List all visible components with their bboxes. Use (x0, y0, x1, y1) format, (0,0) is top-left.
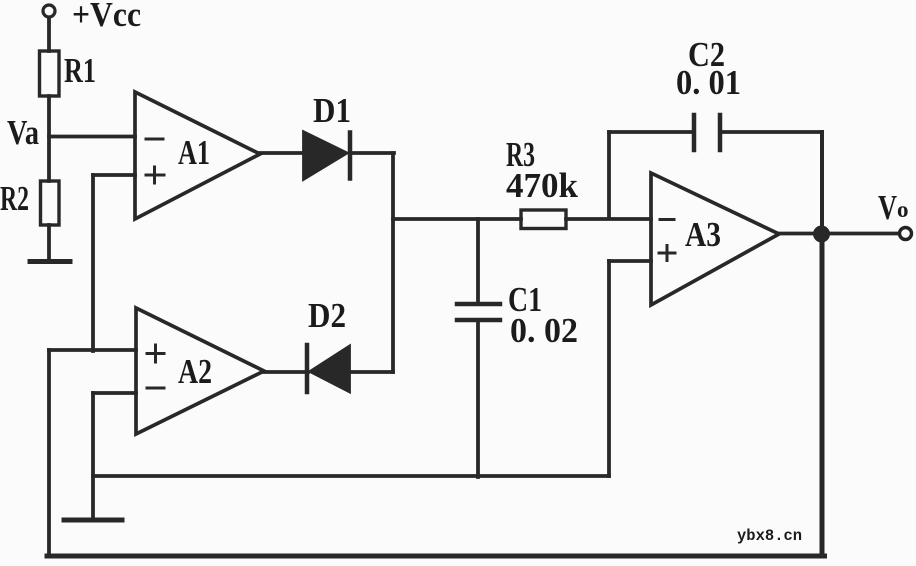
wire A1 output to D1 (260, 151, 305, 155)
svg-text:A3: A3 (685, 215, 721, 254)
wire ground rail to A3 plus (93, 474, 609, 478)
svg-text:A2: A2 (178, 352, 212, 391)
node output junction dot (813, 226, 830, 243)
wire C2 left lead (609, 130, 694, 134)
svg-text:+Vcc: +Vcc (72, 0, 141, 34)
wire A2 output to D2 (264, 370, 308, 374)
wire D2 to corner (349, 370, 393, 374)
wire bottom feedback rail (47, 554, 825, 559)
wire A2 noninverting input rail (49, 348, 136, 352)
wire A2 minus down to ground (91, 393, 95, 518)
wire C2 right lead (720, 130, 822, 134)
wire R3 to A3 inverting input (566, 217, 651, 221)
svg-text:V: V (878, 188, 897, 227)
capacitor C2 (694, 115, 720, 150)
D1 cathode bar (348, 133, 353, 179)
op-amp A2 (136, 308, 264, 434)
A1 plus pin mark (146, 167, 164, 183)
wire right loop vertical D1-D2 (391, 153, 395, 372)
svg-text:A1: A1 (178, 133, 210, 172)
resistor R3 (521, 210, 566, 229)
terminal +Vcc (43, 5, 55, 17)
svg-text:D2: D2 (308, 296, 346, 335)
wire C2 left vertical (607, 132, 611, 218)
wire up to A3 noninverting input (607, 261, 611, 476)
capacitor C1 (457, 304, 500, 320)
wire node Va to A1 inverting input (49, 135, 135, 139)
resistor R2 (41, 181, 60, 225)
wire A2 inverting input (93, 391, 136, 395)
wire A1 plus down to A2 plus rail (91, 175, 95, 351)
ground (below R2) (30, 259, 70, 264)
svg-text:R1: R1 (64, 51, 96, 90)
svg-text:ybx8.cn: ybx8.cn (737, 527, 802, 545)
wire D1 to corner (350, 151, 394, 155)
svg-text:0. 01: 0. 01 (676, 63, 741, 102)
A2 plus pin mark (147, 345, 164, 362)
D2 cathode bar (305, 345, 310, 392)
wire C1 top lead (476, 219, 480, 302)
resistor R1 (40, 51, 60, 96)
diode D1 (304, 133, 346, 179)
wire junction to R3 (393, 217, 521, 221)
A1 minus pin mark (146, 138, 163, 141)
wire A3 output to terminal Vo (779, 232, 904, 236)
wire left feedback vertical (47, 350, 51, 556)
A2 minus pin mark (147, 387, 164, 390)
wire A1 noninverting input (93, 173, 135, 177)
wire C1 bottom lead (476, 322, 480, 477)
A3 plus pin mark (659, 246, 675, 261)
diode D2 (311, 347, 349, 391)
svg-text:R2: R2 (0, 179, 29, 218)
wire A3 noninverting input (609, 259, 651, 263)
svg-text:0. 02: 0. 02 (510, 311, 578, 350)
svg-text:o: o (897, 197, 909, 222)
wire R1 to R2 (47, 96, 51, 181)
wire R2 to ground (47, 225, 51, 260)
wire C2 down to output node (820, 132, 824, 234)
svg-text:D1: D1 (313, 91, 351, 130)
svg-text:470k: 470k (506, 166, 579, 205)
svg-text:Va: Va (7, 113, 39, 152)
op-amp A3 (651, 173, 779, 305)
wire output node down to feedback rail (820, 234, 825, 556)
terminal Vo (900, 228, 912, 240)
ground (A2 minus) (64, 518, 122, 523)
wire Vcc to R1 (47, 18, 51, 52)
A3 minus pin mark (660, 218, 674, 221)
op-amp A1 (135, 92, 260, 219)
